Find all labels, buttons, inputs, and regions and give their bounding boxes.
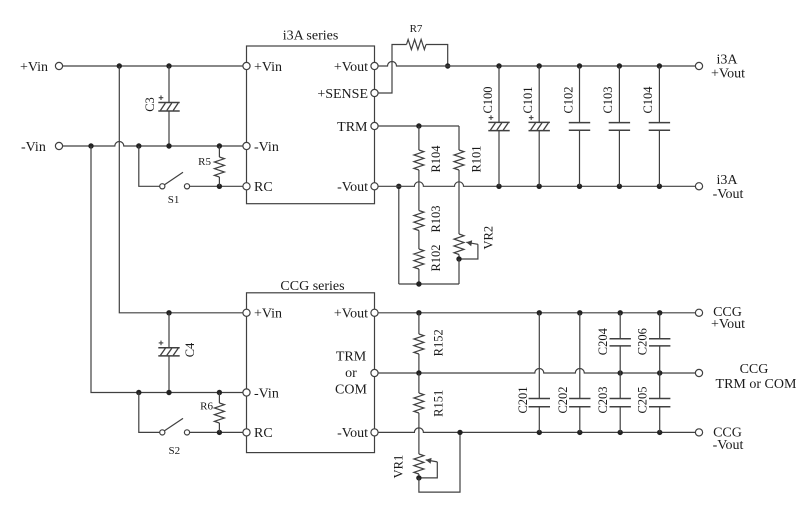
resistor R5: [218, 146, 220, 157]
svg-text:R104: R104: [429, 145, 443, 173]
pin -Vin (CCG): [243, 389, 250, 396]
resistor R6: [218, 393, 220, 404]
svg-text:-Vin: -Vin: [21, 140, 46, 155]
wire R7 to +Vout rail: [426, 45, 448, 67]
svg-text:i3A series: i3A series: [283, 29, 339, 44]
wire -Vin rail (hop over +Vin branch): [63, 142, 243, 146]
junction -Vout C100: [496, 184, 501, 189]
svg-text:C204: C204: [596, 327, 610, 355]
junction CCG -Vout C201: [537, 430, 542, 435]
junction RC R5: [217, 184, 222, 189]
wire TRM: [378, 125, 459, 127]
resistor R101: [458, 126, 460, 150]
wire +Vout rail (hop over sense wire): [378, 62, 695, 67]
pin RC (CCG): [243, 429, 250, 436]
svg-text:R103: R103: [429, 205, 443, 232]
junction CCG -Vout C203: [618, 430, 623, 435]
junction CCG +Vin C4: [166, 310, 171, 315]
junction +Vout C101: [537, 63, 542, 68]
capacitor C204: [619, 313, 621, 339]
wire CCG -Vout rail (hop over R151 column): [378, 428, 695, 433]
pin +SENSE (i3A): [371, 89, 378, 96]
svg-text:C202: C202: [556, 386, 570, 413]
terminal -Vin: [55, 142, 62, 149]
resistor R102: [418, 231, 420, 250]
svg-text:-Vout: -Vout: [337, 180, 368, 195]
wire +Vin rail: [63, 65, 243, 67]
wire trim return bottom: [399, 283, 459, 285]
junction CCG +Vout C202: [577, 310, 582, 315]
junction CCG +Vout R152: [416, 310, 421, 315]
wire -Vout rail (hops over divider columns): [378, 182, 695, 187]
svg-text:TRM: TRM: [336, 350, 367, 365]
wire S1 to RC: [190, 185, 243, 187]
junction -Vout C104: [657, 184, 662, 189]
svg-text:VR1: VR1: [391, 455, 405, 479]
module U2 CCG series box: [247, 293, 375, 453]
switch S1: [139, 146, 160, 186]
svg-text:C3: C3: [143, 97, 157, 112]
svg-text:VR2: VR2: [481, 226, 495, 250]
terminal CCG +Vout: [695, 309, 702, 316]
svg-text:R152: R152: [431, 329, 445, 356]
capacitor C205: [659, 373, 661, 399]
junction CCG TRM R152: [416, 370, 421, 375]
junction CCG TRM C205: [657, 370, 662, 375]
svg-text:R151: R151: [431, 390, 445, 417]
potentiometer VR2: [454, 234, 464, 255]
svg-text:CCG: CCG: [740, 362, 769, 377]
svg-text:TRM or COM: TRM or COM: [716, 377, 797, 392]
junction -Vout C101: [537, 184, 542, 189]
wire S2 to RC: [190, 431, 243, 433]
capacitor C202: [579, 313, 581, 399]
junction CCG TRM C203: [618, 370, 623, 375]
capacitor C102: [579, 66, 581, 123]
capacitor C203: [619, 373, 621, 399]
junction CCG +Vout C206: [657, 310, 662, 315]
junction CCG -Vin S2: [136, 390, 141, 395]
pin +Vin (i3A): [243, 62, 250, 69]
capacitor C104: [658, 66, 660, 123]
svg-text:i3A: i3A: [717, 173, 739, 188]
svg-text:C101: C101: [521, 86, 535, 113]
capacitor C206: [659, 313, 661, 339]
svg-text:+Vin: +Vin: [20, 60, 48, 75]
junction CCG +Vout C204: [618, 310, 623, 315]
svg-text:RC: RC: [254, 426, 273, 441]
junction CCG -Vin R6: [217, 390, 222, 395]
junction +Vin branch: [117, 63, 122, 68]
svg-text:-Vin: -Vin: [254, 386, 279, 401]
junction +Vout C100: [496, 63, 501, 68]
svg-text:C206: C206: [636, 328, 650, 355]
svg-text:C201: C201: [516, 386, 530, 413]
svg-text:C102: C102: [561, 86, 575, 113]
pin +Vout (i3A): [371, 62, 378, 69]
terminal CCG -Vout: [695, 429, 702, 436]
junction RC R6: [217, 430, 222, 435]
svg-text:TRM: TRM: [337, 120, 368, 135]
svg-text:C100: C100: [481, 86, 495, 113]
svg-text:-Vin: -Vin: [254, 140, 279, 155]
junction -Vout trim return: [396, 184, 401, 189]
svg-text:+Vin: +Vin: [254, 307, 282, 322]
pin -Vin (i3A): [243, 142, 250, 149]
svg-text:R5: R5: [198, 156, 211, 168]
junction CCG +Vout C201: [537, 310, 542, 315]
resistor R103: [418, 170, 420, 211]
capacitor C103: [618, 66, 620, 123]
wire trim return up to -Vout: [398, 186, 400, 284]
svg-text:COM: COM: [335, 382, 367, 397]
terminal i3A -Vout: [695, 183, 702, 190]
svg-text:R101: R101: [470, 145, 484, 172]
pin -Vout (i3A): [371, 183, 378, 190]
junction R7 +Vout: [445, 63, 450, 68]
svg-text:+Vout: +Vout: [334, 307, 368, 322]
wire +Vin down to CCG +Vin: [119, 66, 243, 313]
junction CCG -Vout C205: [657, 430, 662, 435]
resistor R104: [418, 126, 420, 150]
capacitor C101: [538, 66, 540, 122]
svg-text:C205: C205: [636, 386, 650, 413]
capacitor C201: [538, 313, 540, 399]
pin -Vout (CCG): [371, 429, 378, 436]
junction +Vout C102: [577, 63, 582, 68]
capacitor C4: [168, 313, 170, 348]
junction -Vin S1: [136, 143, 141, 148]
terminal i3A +Vout: [695, 62, 702, 69]
wire CCG TRM rail (hops over C201 C202): [378, 369, 695, 373]
pin +Vin (CCG): [243, 309, 250, 316]
op-amp/module U1 i3A series box: [247, 46, 375, 204]
junction CCG -Vin C4: [166, 390, 171, 395]
svg-text:C203: C203: [596, 386, 610, 413]
svg-text:+Vout: +Vout: [334, 60, 368, 75]
junction CCG -Vout C202: [577, 430, 582, 435]
potentiometer VR1: [414, 454, 424, 474]
junction -Vin C3: [166, 143, 171, 148]
capacitor C100: [498, 66, 500, 122]
svg-text:or: or: [345, 366, 357, 381]
svg-text:+Vout: +Vout: [711, 317, 745, 332]
wire -Vin down to CCG -Vin: [91, 146, 243, 393]
svg-text:RC: RC: [254, 180, 273, 195]
junction +Vin C3: [166, 63, 171, 68]
svg-text:C4: C4: [183, 342, 197, 357]
switch S2: [139, 393, 160, 433]
svg-text:-Vout: -Vout: [713, 187, 744, 202]
svg-text:S2: S2: [168, 445, 180, 457]
svg-text:-Vout: -Vout: [713, 438, 744, 453]
svg-text:i3A: i3A: [717, 53, 739, 68]
svg-text:R6: R6: [200, 401, 213, 413]
svg-text:R102: R102: [429, 244, 443, 271]
junction +Vout C103: [617, 63, 622, 68]
terminal +Vin: [55, 62, 62, 69]
junction -Vin R5: [217, 143, 222, 148]
junction -Vout C103: [617, 184, 622, 189]
pin RC (i3A): [243, 183, 250, 190]
resistor R152: [418, 313, 420, 334]
junction -Vout C102: [577, 184, 582, 189]
resistor R7: [407, 40, 427, 50]
junction +Vout C104: [657, 63, 662, 68]
junction R102 bottom: [416, 281, 421, 286]
junction CCG -Vout VR1 return: [457, 430, 462, 435]
svg-text:+Vout: +Vout: [711, 67, 745, 82]
junction TRM R104: [416, 123, 421, 128]
wire CCG +Vout rail: [378, 312, 695, 314]
terminal CCG TRM or COM: [695, 369, 702, 376]
svg-text:CCG series: CCG series: [280, 279, 344, 294]
svg-text:C104: C104: [641, 86, 655, 114]
svg-text:S1: S1: [168, 194, 180, 206]
capacitor C3: [168, 66, 170, 103]
svg-text:R7: R7: [410, 23, 423, 35]
pin TRM or COM (CCG): [371, 369, 378, 376]
svg-text:-Vout: -Vout: [337, 426, 368, 441]
junction -Vin branch: [88, 143, 93, 148]
pin +Vout (CCG): [371, 309, 378, 316]
svg-text:+SENSE: +SENSE: [317, 87, 368, 102]
svg-text:+Vin: +Vin: [254, 60, 282, 75]
pin TRM (i3A): [371, 122, 378, 129]
wire +SENSE to R7: [378, 45, 406, 94]
svg-text:C103: C103: [601, 86, 615, 113]
resistor R151: [418, 373, 420, 393]
